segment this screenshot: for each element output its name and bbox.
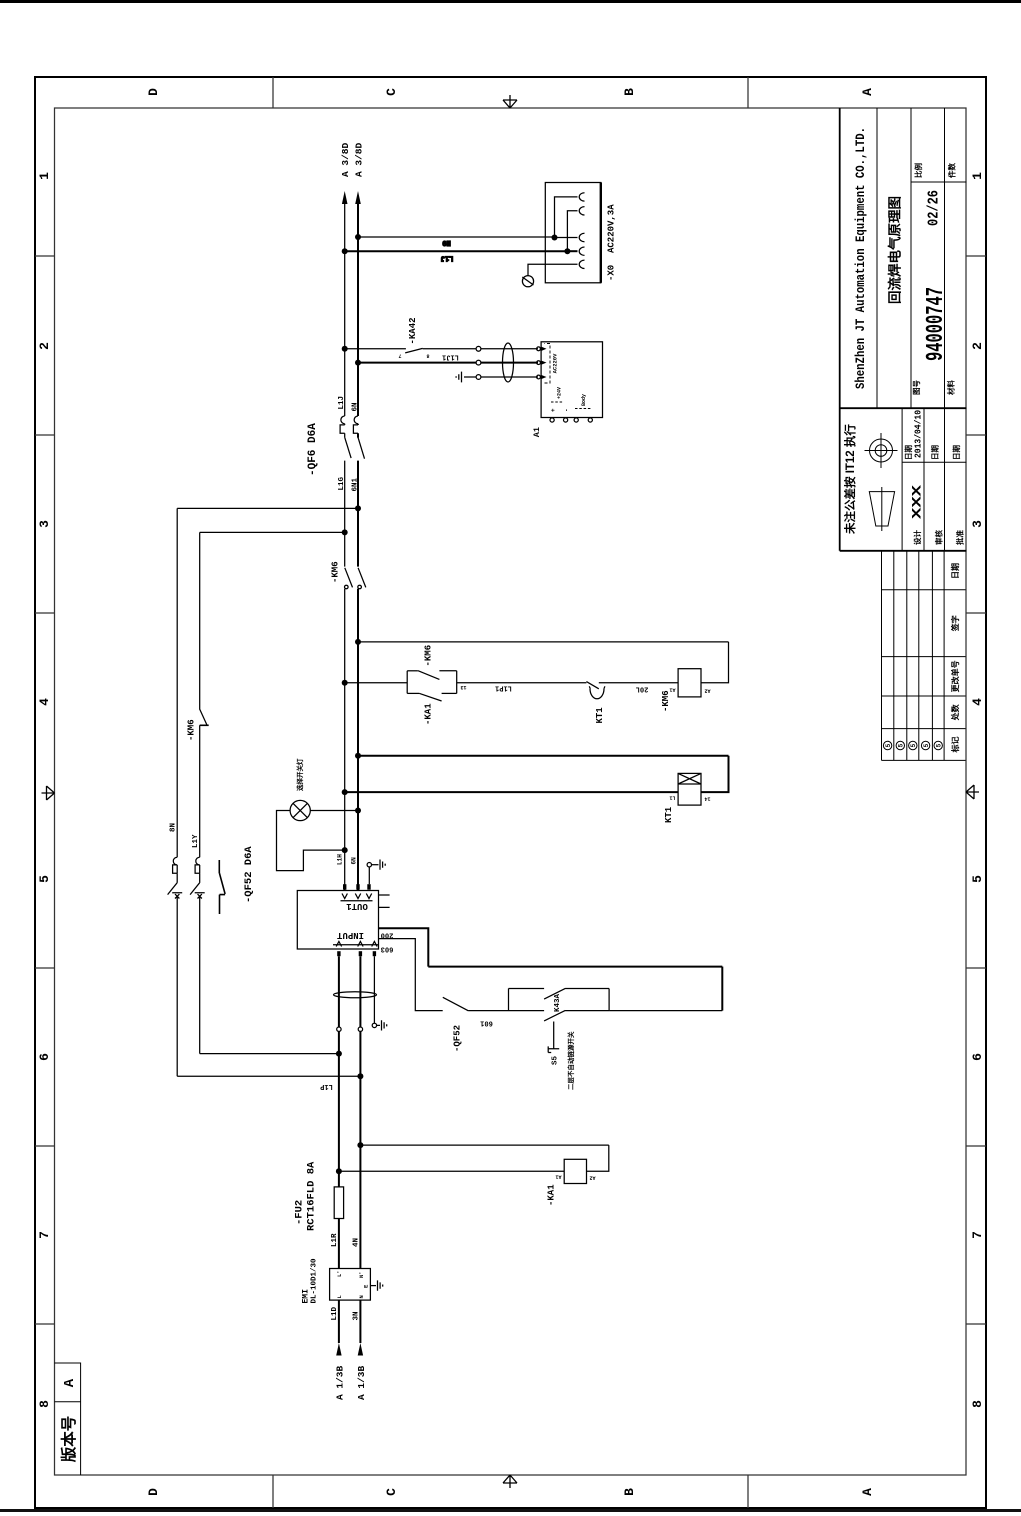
svg-text:AC220V: AC220V bbox=[552, 353, 559, 374]
A1 Body bracket bbox=[575, 408, 591, 410]
svg-text:3N: 3N bbox=[353, 1311, 361, 1320]
svg-text:A2: A2 bbox=[704, 688, 710, 694]
svg-text:L1D: L1D bbox=[331, 1306, 339, 1320]
svg-text:版本号: 版本号 bbox=[59, 1416, 78, 1464]
svg-text:B: B bbox=[622, 88, 637, 96]
svg-text:签字: 签字 bbox=[950, 615, 961, 632]
svg-text:L1J1: L1J1 bbox=[442, 353, 459, 361]
arrow to sheet 1/3B wire N bbox=[358, 1343, 363, 1356]
svg-text:KT1: KT1 bbox=[595, 707, 605, 724]
node on L1 at x=1264.8 bbox=[342, 248, 348, 254]
chassis ground symbol at X0 bbox=[522, 276, 533, 287]
svg-text:6: 6 bbox=[37, 1053, 52, 1061]
svg-text:二层不自动链源开关: 二层不自动链源开关 bbox=[566, 1031, 575, 1090]
svg-text:2: 2 bbox=[970, 342, 985, 350]
svg-text:5: 5 bbox=[936, 743, 943, 747]
QF52 branch line 1 (net 8N) bbox=[176, 508, 178, 1076]
EMI filter box bbox=[330, 1269, 371, 1301]
parallel block top bar bbox=[406, 671, 408, 694]
svg-text:L: L bbox=[336, 1295, 343, 1299]
svg-text:5: 5 bbox=[885, 743, 892, 747]
wire net 601 riser bbox=[609, 1010, 722, 1012]
input wire L (net L1P) bbox=[338, 956, 340, 1343]
svg-text:更改单号: 更改单号 bbox=[950, 660, 961, 692]
designer row bbox=[903, 445, 966, 546]
QF52 riser to input wire L (net L1Y side) bbox=[200, 1053, 339, 1055]
svg-text:8: 8 bbox=[970, 1400, 985, 1408]
connector circles on input wires bbox=[337, 1027, 363, 1031]
node on N at x=874.1 bbox=[355, 639, 361, 645]
KA43A block bottom bar bbox=[608, 989, 610, 1011]
arrow to sheet 3/8D line 1 bbox=[342, 191, 348, 204]
parallel block bottom bar bbox=[456, 671, 458, 694]
svg-text:20L: 20L bbox=[636, 685, 649, 693]
time relay contact KT1 (delayed close) bbox=[586, 682, 678, 699]
svg-text:4: 4 bbox=[37, 698, 52, 706]
unused stub pins on box bottom bbox=[379, 895, 390, 907]
svg-text:2013/04/10: 2013/04/10 bbox=[913, 410, 924, 458]
svg-text:A1: A1 bbox=[532, 427, 542, 437]
svg-text:L1P1: L1P1 bbox=[495, 684, 512, 692]
svg-text:S5: S5 bbox=[552, 1055, 560, 1065]
X0 wire from contact 3 bbox=[555, 237, 578, 239]
breaker contact QF52 single pole bbox=[443, 997, 469, 1011]
node on N at lamp branch bbox=[355, 808, 361, 814]
indicator lamp (selector switch lamp) bbox=[290, 800, 310, 820]
earth symbol at PE wire end bbox=[372, 1020, 387, 1030]
centering mark top bbox=[42, 786, 55, 800]
svg-text:A 1/3B: A 1/3B bbox=[335, 1365, 346, 1400]
wire coil to bottom elbow bbox=[701, 642, 729, 683]
arrow to sheet 1/3B wire L bbox=[336, 1343, 341, 1356]
wire net 603 back to box bbox=[379, 939, 509, 1011]
svg-text:+24V: +24V bbox=[557, 387, 563, 399]
svg-text:D: D bbox=[146, 1488, 161, 1496]
svg-text:A2: A2 bbox=[589, 1175, 595, 1181]
svg-text:-KM6: -KM6 bbox=[331, 561, 341, 583]
contact KA1 (left path) bbox=[407, 693, 457, 701]
IN side chevrons bbox=[333, 942, 378, 947]
relay contact KA42 bbox=[345, 348, 476, 353]
title block grid bbox=[840, 108, 967, 551]
node on N at x=760.2 bbox=[355, 753, 361, 759]
svg-text:7: 7 bbox=[398, 353, 401, 359]
node on L1 at lamp branch bbox=[342, 847, 348, 853]
svg-text:200: 200 bbox=[381, 931, 394, 939]
earth symbol at power unit output bbox=[367, 860, 385, 870]
svg-text:ShenZhen JT Automation Equipme: ShenZhen JT Automation Equipment CO.,LTD… bbox=[853, 127, 868, 389]
X0 internal wire to contact 1 bbox=[555, 197, 578, 238]
svg-text:6: 6 bbox=[970, 1053, 985, 1061]
wire KA1 coil to bottom bar bbox=[587, 1145, 609, 1171]
KA43A bypass path with contact bbox=[509, 988, 610, 999]
svg-text:6N1: 6N1 bbox=[351, 477, 359, 491]
node at KA1 return on N bbox=[357, 1142, 363, 1148]
svg-text:批准: 批准 bbox=[955, 530, 966, 545]
earth symbol at EMI bbox=[378, 1280, 383, 1290]
A1 AC220V input bracket bbox=[545, 344, 551, 384]
svg-text:标记: 标记 bbox=[950, 737, 961, 754]
breaker QF52 pole 1 bbox=[168, 857, 183, 898]
wire from L1 down to parallel block bbox=[345, 682, 408, 684]
svg-text:KT1: KT1 bbox=[664, 806, 674, 823]
svg-text:审核: 审核 bbox=[934, 530, 945, 545]
return wire to N bbox=[358, 641, 729, 643]
OUT side pins bbox=[343, 884, 371, 890]
svg-text:4N: 4N bbox=[353, 1238, 361, 1247]
time relay coil KT1 bbox=[678, 773, 701, 805]
svg-text:日期: 日期 bbox=[930, 445, 941, 461]
svg-text:OUT1: OUT1 bbox=[346, 901, 368, 911]
svg-text:回流焊电气原理图: 回流焊电气原理图 bbox=[887, 196, 903, 304]
svg-text:-KM6: -KM6 bbox=[661, 690, 671, 712]
svg-text:14: 14 bbox=[704, 796, 710, 802]
svg-text:6N: 6N bbox=[350, 857, 357, 865]
breaker QF6 pole 1 bbox=[340, 416, 351, 458]
svg-text:L1: L1 bbox=[669, 795, 675, 801]
X0 internal wire to contact 2 bbox=[567, 211, 577, 251]
node on L1 at x=723.9 bbox=[342, 789, 348, 795]
svg-text:6N: 6N bbox=[351, 402, 359, 411]
breaker QF6 pole 2 bbox=[353, 416, 364, 459]
wire branch to X0 contact 3 (net N9) bbox=[358, 236, 555, 238]
arrow to sheet 3/8D line 2 bbox=[355, 191, 361, 204]
node on input L wire bbox=[336, 1051, 342, 1057]
A1 top terminals bbox=[537, 346, 547, 379]
svg-text:8: 8 bbox=[37, 1400, 52, 1408]
svg-text:1: 1 bbox=[970, 172, 985, 180]
svg-text:L': L' bbox=[336, 1270, 343, 1277]
svg-text:图号: 图号 bbox=[912, 380, 921, 396]
node on N at x=1279 bbox=[355, 234, 361, 240]
svg-text:-QF52: -QF52 bbox=[453, 1025, 463, 1052]
svg-text:B: B bbox=[622, 1488, 637, 1496]
input wire N (net 4N) bbox=[359, 956, 361, 1343]
wire lamp to N bbox=[310, 810, 358, 812]
svg-text:5: 5 bbox=[970, 875, 985, 883]
svg-text:8: 8 bbox=[426, 353, 429, 359]
X0 contact arcs 1-5 bbox=[579, 193, 584, 269]
wire from L1 to selector lamp bbox=[277, 811, 345, 871]
page edge scan bar (portrait top) bbox=[0, 0, 1021, 3]
svg-text:A: A bbox=[860, 1488, 875, 1496]
zone tick marks left band bbox=[273, 1475, 748, 1508]
centering mark left bbox=[503, 1475, 517, 1488]
bus wire N6 (bottom rail y=358) bbox=[357, 204, 359, 890]
node inside X0 on L1J wire bbox=[564, 248, 570, 254]
svg-text:-KM6: -KM6 bbox=[424, 645, 434, 667]
version box bbox=[55, 1363, 81, 1475]
svg-text:7: 7 bbox=[970, 1231, 985, 1239]
svg-text:N9: N9 bbox=[442, 238, 450, 246]
svg-text:比例: 比例 bbox=[913, 163, 923, 179]
wire branch N to A1 (net 6N) bbox=[358, 362, 476, 364]
svg-text:-KA1: -KA1 bbox=[547, 1184, 557, 1206]
svg-text:Body: Body bbox=[581, 394, 587, 406]
svg-text:5: 5 bbox=[898, 743, 905, 747]
IN side pins bbox=[337, 951, 376, 956]
zone tick marks bottom band bbox=[966, 256, 986, 1324]
svg-text:L1J: L1J bbox=[441, 254, 454, 262]
EMI earth wire bbox=[370, 1285, 376, 1287]
wire KT1 coil to bottom bar bbox=[701, 756, 729, 792]
wire N to QF52 (net 8N riser) bbox=[177, 507, 358, 509]
A1 left terminals bbox=[550, 418, 592, 422]
svg-text:L1P: L1P bbox=[320, 1082, 333, 1090]
svg-text:601: 601 bbox=[480, 1019, 493, 1027]
wire L1 to QF52 (net L1Y riser) bbox=[200, 531, 345, 533]
svg-text:L1G: L1G bbox=[338, 476, 346, 490]
svg-text:L1R: L1R bbox=[331, 1233, 339, 1247]
svg-text:-QF52 D6A: -QF52 D6A bbox=[243, 846, 255, 903]
connector circles to A1 cable bbox=[476, 346, 481, 379]
svg-text:未注公差按 IT12 执行: 未注公差按 IT12 执行 bbox=[843, 424, 857, 535]
revision table grid bbox=[882, 551, 966, 761]
svg-text:94000747: 94000747 bbox=[923, 287, 950, 361]
svg-text:材料: 材料 bbox=[946, 380, 956, 396]
svg-text:-QF6 D6A: -QF6 D6A bbox=[307, 423, 319, 476]
wire net 200 from box bbox=[379, 928, 429, 966]
breaker QF52 pole 3 element bbox=[219, 860, 225, 914]
svg-text:-KM6: -KM6 bbox=[187, 719, 197, 741]
svg-text:A 1/3B: A 1/3B bbox=[356, 1365, 367, 1400]
wire input L to KA1 coil bbox=[339, 1170, 564, 1172]
svg-text:N: N bbox=[358, 1295, 365, 1298]
switch S5 terminal bbox=[548, 1046, 559, 1052]
wire branch to X0 contact 4 (net L1J) bbox=[345, 250, 568, 252]
svg-text:4: 4 bbox=[970, 698, 985, 706]
svg-text:603: 603 bbox=[381, 945, 394, 953]
rail from L1 to KT1 coil bbox=[345, 791, 678, 793]
node on L1 at x=983.6 bbox=[342, 529, 348, 535]
svg-text:L1J: L1J bbox=[338, 396, 346, 410]
centering mark right bbox=[503, 95, 517, 108]
breaker QF52 pole 2 bbox=[190, 857, 205, 898]
svg-text:A 3/8D: A 3/8D bbox=[340, 142, 351, 177]
contactor KM6 aux contact on L1Y bbox=[200, 709, 209, 725]
svg-text:日期: 日期 bbox=[951, 445, 962, 461]
revision mark (5) circles column bbox=[883, 741, 942, 749]
svg-text:C: C bbox=[384, 1488, 399, 1496]
A1 +24V bracket bbox=[551, 401, 564, 403]
centering mark bottom bbox=[966, 785, 979, 799]
return wire to input N bbox=[360, 1144, 608, 1146]
cable wires down to A1 bbox=[481, 349, 538, 377]
PE wire from OUT pin to earth bbox=[368, 867, 370, 884]
bus wire L1 (top rail y=344.7) bbox=[344, 204, 346, 890]
EMI terminal labels bbox=[336, 1270, 370, 1298]
svg-text:设计: 设计 bbox=[912, 530, 923, 545]
node on N at x=1153.4 bbox=[355, 360, 361, 366]
earth symbol above A1 PE wire bbox=[456, 372, 476, 383]
svg-text:-KA1: -KA1 bbox=[424, 703, 434, 725]
svg-text:-KA42: -KA42 bbox=[408, 317, 418, 344]
X0 wire from contact 4 bbox=[567, 250, 577, 252]
svg-text:K43A: K43A bbox=[554, 993, 562, 1012]
contactor KM6 main contact pole 2 bbox=[358, 568, 366, 589]
node on input N wire bbox=[357, 1073, 363, 1079]
svg-text:7: 7 bbox=[37, 1231, 52, 1239]
node inside X0 on N9 wire bbox=[552, 235, 558, 241]
svg-text:A: A bbox=[860, 88, 875, 96]
wire block to KT1 contact bbox=[457, 682, 587, 684]
svg-text:E: E bbox=[363, 1284, 370, 1288]
X0 earth wire from contact 5 bbox=[528, 264, 578, 275]
QF52 riser to input wire N (net 8N side) bbox=[177, 1075, 360, 1077]
svg-text:L1H: L1H bbox=[337, 854, 344, 865]
svg-text:02/26: 02/26 bbox=[927, 190, 943, 226]
svg-text:5: 5 bbox=[910, 743, 917, 747]
svg-text:EMI: EMI bbox=[302, 1289, 311, 1304]
svg-text:A: A bbox=[62, 1378, 78, 1387]
cable marker ellipse bbox=[503, 343, 514, 382]
terminal strip X0 box bbox=[545, 183, 601, 283]
relay coil KA1 bbox=[564, 1159, 586, 1183]
zone tick marks top band bbox=[35, 256, 55, 1324]
power supply unit A1 box bbox=[541, 342, 602, 418]
contactor coil KM6 bbox=[678, 669, 701, 697]
svg-text:AC220V,3A: AC220V,3A bbox=[607, 204, 617, 253]
svg-text:INPUT: INPUT bbox=[336, 930, 364, 940]
bottom bar of loop bbox=[721, 967, 723, 1011]
labels top-right region bbox=[340, 142, 365, 177]
svg-text:+: + bbox=[550, 408, 557, 412]
svg-text:-X0: -X0 bbox=[607, 265, 617, 281]
svg-text:1: 1 bbox=[37, 172, 52, 180]
svg-text:13: 13 bbox=[460, 684, 466, 690]
OUT side chevrons bbox=[341, 894, 373, 901]
svg-text:D: D bbox=[146, 88, 161, 96]
first-angle projection symbol: circle bbox=[865, 433, 898, 468]
svg-text:-: - bbox=[564, 408, 571, 412]
svg-text:A 3/8D: A 3/8D bbox=[354, 142, 365, 177]
svg-text:N': N' bbox=[358, 1271, 365, 1278]
svg-text:XXX: XXX bbox=[911, 484, 925, 519]
QF52 branch line 2 (net L1Y) bbox=[199, 532, 201, 1053]
node on L1 at KA42 branch bbox=[342, 346, 348, 352]
first-angle projection symbol: truncated cone bbox=[869, 487, 894, 531]
svg-text:8N: 8N bbox=[170, 823, 178, 832]
svg-text:2: 2 bbox=[37, 342, 52, 350]
contactor KM6 main contact pole 1 bbox=[345, 568, 353, 589]
node on L1 at x=833.3 bbox=[342, 680, 348, 686]
svg-text:C: C bbox=[384, 88, 399, 96]
svg-text:5: 5 bbox=[923, 743, 930, 747]
svg-text:选择开关灯: 选择开关灯 bbox=[295, 758, 304, 791]
KA43A main path pieces bbox=[509, 1010, 610, 1021]
svg-text:3: 3 bbox=[970, 520, 985, 528]
rail bottom bar to N bbox=[358, 755, 729, 757]
svg-text:DL-10D1/30: DL-10D1/30 bbox=[311, 1258, 319, 1304]
svg-text:-FU2: -FU2 bbox=[294, 1200, 306, 1225]
wire net 200 down leg bbox=[428, 966, 722, 968]
node at KA1 tap on L bbox=[336, 1168, 342, 1174]
KA43A block bypass top bar bbox=[508, 989, 510, 1011]
S5 wire from blade bbox=[553, 1022, 555, 1049]
svg-text:A1: A1 bbox=[669, 687, 675, 693]
page edge scan bar (portrait bottom) bbox=[0, 1509, 1021, 1512]
node on N at x=1007.6 bbox=[355, 505, 361, 511]
revision table header labels bbox=[950, 563, 961, 754]
power filter unit box (OUT1/INPUT) bbox=[297, 891, 378, 950]
svg-text:RCT16FLD 8A: RCT16FLD 8A bbox=[306, 1161, 318, 1231]
svg-text:日期: 日期 bbox=[950, 563, 961, 579]
contact KM6 aux (right path) bbox=[407, 671, 457, 680]
svg-text:5: 5 bbox=[37, 875, 52, 883]
svg-text:处数: 处数 bbox=[950, 703, 961, 721]
fuse FU2 bbox=[334, 1187, 343, 1219]
cable marker ellipse on input wires bbox=[334, 992, 377, 998]
svg-text:件数: 件数 bbox=[947, 163, 957, 179]
svg-text:A1: A1 bbox=[555, 1174, 561, 1180]
svg-text:L1Y: L1Y bbox=[192, 834, 200, 848]
svg-text:3: 3 bbox=[37, 520, 52, 528]
zone tick marks right band bbox=[273, 77, 748, 108]
input wire PE bbox=[373, 956, 375, 1023]
